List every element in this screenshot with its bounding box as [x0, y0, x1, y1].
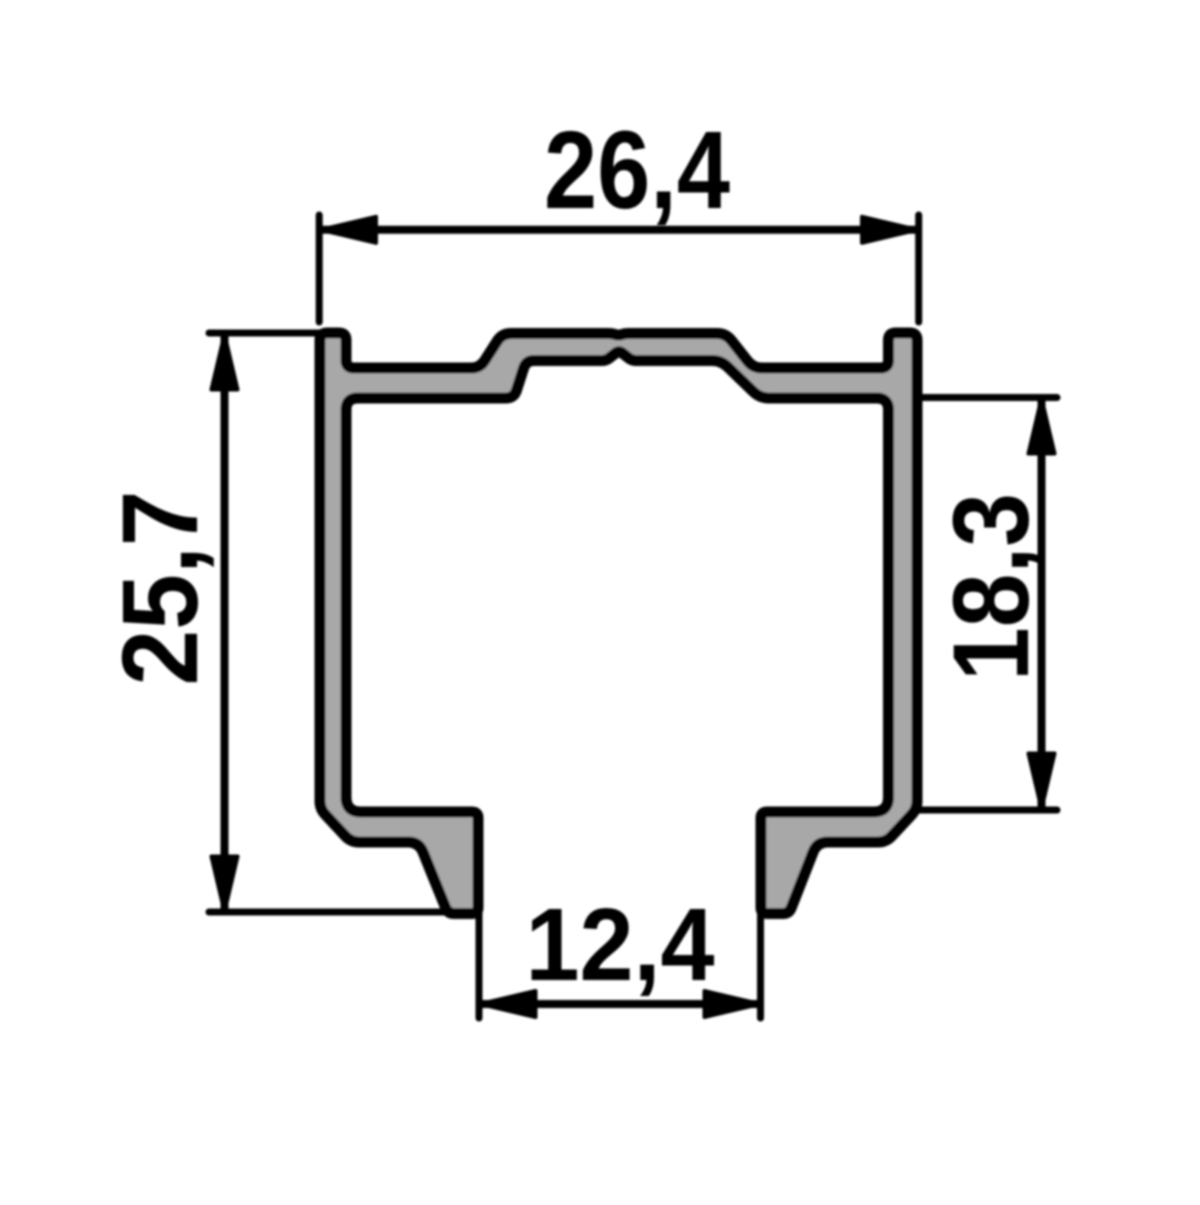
dim 25.7 line [221, 334, 229, 911]
svg-text:12,4: 12,4 [526, 887, 715, 1002]
dim 26.4 line [320, 226, 918, 234]
dim 18.3 line [1038, 398, 1046, 809]
svg-text:25,7: 25,7 [99, 491, 220, 686]
dim 12.4 extension lines [476, 907, 483, 1018]
dim 18.3 extension lines [919, 394, 1057, 401]
dim 26.4 extension lines [316, 215, 323, 322]
dim 25.7 extension lines [209, 330, 330, 337]
profile cross-section [320, 333, 917, 914]
svg-text:26,4: 26,4 [544, 109, 730, 232]
dim 12.4 line [480, 1000, 760, 1008]
svg-text:18,3: 18,3 [930, 493, 1051, 681]
